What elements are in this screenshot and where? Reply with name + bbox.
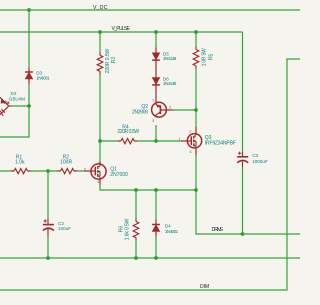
svg-text:IRF9Z34NPBF: IRF9Z34NPBF bbox=[205, 141, 236, 147]
node junction source row Q3 bbox=[194, 188, 198, 192]
wire DRIVE net bbox=[196, 190, 300, 234]
svg-text:1N4001: 1N4001 bbox=[36, 76, 50, 81]
diode D6 1N4148 bbox=[152, 77, 160, 102]
svg-text:2N3906: 2N3906 bbox=[132, 109, 148, 115]
svg-text:DIM: DIM bbox=[200, 284, 209, 290]
resistor R3 220R 0.5W vertical bbox=[97, 52, 103, 75]
node junction R3 R4 Q1 drain bbox=[98, 139, 102, 143]
node junction bridge output bbox=[27, 104, 31, 108]
wire D3 branch vertical bbox=[0, 10, 29, 137]
svg-text:1.0R 5W: 1.0R 5W bbox=[202, 48, 208, 66]
node junction V_PULSE R5 bbox=[194, 30, 198, 34]
node junction ground D4 bbox=[154, 256, 158, 260]
svg-text:V_DC: V_DC bbox=[93, 5, 108, 11]
node junction ground C2 bbox=[46, 256, 50, 260]
transistor Q1 2N7000 MOSFET bbox=[85, 161, 106, 184]
svg-text:1N4148: 1N4148 bbox=[163, 81, 177, 86]
svg-text:1: 1 bbox=[97, 161, 99, 165]
svg-text:GBU4M: GBU4M bbox=[9, 97, 25, 102]
svg-text:C3: C3 bbox=[252, 153, 258, 158]
node junction source row D4 bbox=[154, 188, 158, 192]
node junction DRIVE C3 bbox=[241, 232, 245, 236]
svg-text:R6: R6 bbox=[119, 226, 125, 233]
node junction R4 Q2 emitter bbox=[154, 139, 158, 143]
wire D5 D6 branch vertical bbox=[155, 32, 157, 141]
node junction source row R6 bbox=[134, 188, 138, 192]
node junction Q2 base R5 bbox=[194, 108, 198, 112]
svg-text:220R 0.5W: 220R 0.5W bbox=[105, 48, 111, 73]
svg-text:2: 2 bbox=[84, 167, 86, 171]
node junction R1 R2 C2 bbox=[46, 169, 50, 173]
diode D3 1N4001 bbox=[25, 68, 33, 85]
wire bridge output to D3 branch bbox=[11, 105, 30, 107]
bridge rectifier D2 (partial at left edge) bbox=[0, 97, 11, 116]
wire Q1 source to Q3 source row bbox=[100, 185, 196, 191]
svg-text:1.0k: 1.0k bbox=[15, 160, 25, 166]
svg-text:1N4001: 1N4001 bbox=[165, 229, 179, 234]
capacitor C2 100uF bbox=[43, 219, 54, 237]
svg-text:3: 3 bbox=[190, 150, 192, 154]
node junction V_PULSE D5 bbox=[154, 30, 158, 34]
svg-text:R5: R5 bbox=[209, 54, 215, 61]
wire C3 branch from V_PULSE down to DRIVE bbox=[242, 32, 244, 234]
svg-text:1.6k 0.5W: 1.6k 0.5W bbox=[124, 218, 130, 240]
wire R4 run to Q3 gate bbox=[100, 140, 181, 142]
svg-text:2: 2 bbox=[169, 105, 171, 109]
resistor R6 1.6k 0.5W vertical bbox=[133, 219, 139, 241]
wire R3 branch vertical bbox=[99, 32, 101, 161]
wire R1 R2 run to Q1 gate bbox=[0, 170, 85, 172]
svg-text:100R: 100R bbox=[60, 160, 72, 166]
svg-text:DRIVE: DRIVE bbox=[212, 227, 225, 233]
wire R6 branch vertical bbox=[135, 190, 137, 258]
transistor Q3 IRF9Z34NPBF MOSFET bbox=[181, 127, 202, 155]
svg-text:V_PULSE: V_PULSE bbox=[112, 26, 131, 32]
svg-text:D4: D4 bbox=[165, 223, 171, 228]
svg-text:100uF: 100uF bbox=[58, 226, 71, 231]
wire right side return bbox=[0, 59, 300, 290]
svg-text:2: 2 bbox=[190, 130, 192, 134]
svg-text:C2: C2 bbox=[58, 221, 64, 226]
resistor R4 220R 0.5W horizontal bbox=[118, 139, 138, 144]
wire C2 branch vertical bbox=[47, 171, 49, 258]
node junction V_PULSE R3 bbox=[98, 30, 102, 34]
svg-text:1: 1 bbox=[152, 99, 154, 103]
node junction V_DC x29 bbox=[27, 8, 31, 12]
wire V_DC bus bbox=[0, 9, 300, 11]
wire R5 branch vertical bbox=[195, 32, 197, 190]
svg-text:220R 0.5W: 220R 0.5W bbox=[117, 129, 139, 135]
wire Q2 base to R5 node bbox=[173, 109, 197, 111]
svg-text:R3: R3 bbox=[111, 57, 117, 64]
node junction ground R6 bbox=[134, 256, 138, 260]
resistor R2 100R horizontal bbox=[58, 169, 78, 174]
transistor Q2 2N3906 PNP bbox=[152, 102, 173, 117]
svg-text:D2: D2 bbox=[11, 91, 17, 96]
svg-text:2N7000: 2N7000 bbox=[110, 172, 128, 178]
svg-text:1000uF: 1000uF bbox=[252, 159, 268, 164]
wire D4 branch vertical bbox=[155, 190, 157, 258]
svg-text:3: 3 bbox=[97, 180, 99, 184]
wire ground row bbox=[0, 257, 300, 259]
capacitor C3 1000uF bbox=[237, 152, 248, 167]
diode D5 1N4148 bbox=[152, 48, 160, 78]
diode D4 1N4001 bbox=[152, 220, 160, 237]
wire V_PULSE bus bbox=[0, 31, 243, 33]
svg-text:1: 1 bbox=[178, 137, 180, 141]
resistor R5 1.0R 5W vertical bbox=[193, 47, 199, 70]
svg-text:1N4148: 1N4148 bbox=[163, 56, 177, 61]
svg-text:3: 3 bbox=[152, 119, 154, 123]
resistor R1 1.0k horizontal bbox=[11, 169, 31, 174]
